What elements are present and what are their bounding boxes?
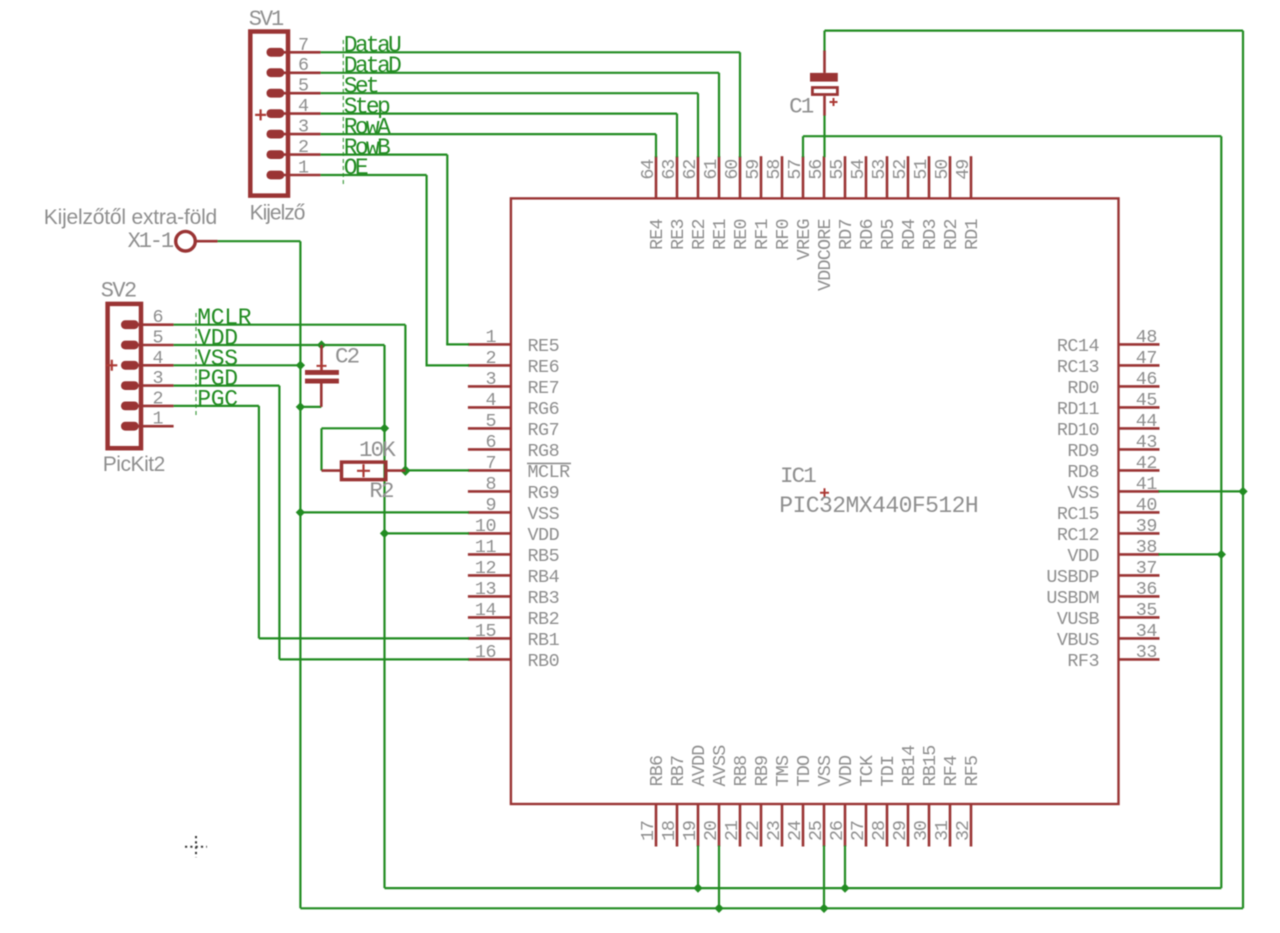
svg-text:63: 63: [659, 160, 680, 180]
IC1 pin 38 VDD stub: [1119, 553, 1160, 556]
pad X1-1 circle: [176, 231, 196, 251]
svg-text:26: 26: [827, 821, 848, 841]
wire net OE to IC pin 2: [426, 364, 469, 366]
wire net VDD bottom rail: [385, 887, 1222, 889]
SV1 pin 4 contact: [267, 109, 285, 118]
IC1 pin 7 MCLR stub: [468, 469, 511, 472]
svg-text:4: 4: [485, 390, 496, 411]
svg-text:RB8: RB8: [731, 756, 752, 787]
svg-text:10: 10: [475, 516, 496, 537]
svg-text:VDD: VDD: [1067, 546, 1099, 567]
svg-text:VUSB: VUSB: [1057, 609, 1100, 630]
IC1 pin 46 RD0 stub: [1119, 385, 1160, 388]
junction VSS / IC pin 41: [1238, 487, 1247, 496]
wire net VDD IC pin 26 drop: [844, 846, 846, 889]
svg-text:28: 28: [869, 821, 890, 841]
wire net DataD vertical to IC top pin: [718, 73, 720, 157]
SV2 pin 6 contact: [121, 320, 139, 329]
svg-text:SV2: SV2: [101, 278, 136, 303]
capacitor C1 plate 1: [810, 73, 838, 82]
svg-text:43: 43: [1136, 432, 1157, 453]
svg-text:35: 35: [1136, 600, 1157, 621]
IC1 pin 2 RE6 stub: [468, 364, 511, 367]
IC1 pin 56 VDDCORE stub: [823, 156, 826, 198]
svg-text:29: 29: [890, 821, 911, 841]
wire net PGC to IC pin 15: [259, 637, 469, 639]
IC1 pin 8 RG9 stub: [468, 490, 511, 493]
svg-text:1: 1: [152, 409, 163, 430]
svg-text:12: 12: [475, 558, 496, 579]
wire net DataD horizontal: [321, 72, 719, 74]
IC1 pin 42 RD8 stub: [1119, 469, 1160, 472]
svg-text:RE1: RE1: [710, 219, 731, 250]
SV2 pin 2 lead: [137, 405, 174, 408]
wire net VSS IC pin 20 drop: [718, 846, 720, 909]
resistor R2 left lead: [322, 469, 342, 472]
SV1 pin 2 lead: [282, 153, 320, 156]
wire net RowA vertical to IC top pin: [655, 134, 657, 157]
IC1 pin 37 USBDP stub: [1119, 574, 1160, 577]
svg-text:7: 7: [485, 453, 496, 474]
IC1 pin 43 RD9 stub: [1119, 448, 1160, 451]
C2 plus mark: [317, 361, 327, 371]
svg-text:Kijelzőtől extra-föld: Kijelzőtől extra-föld: [44, 206, 217, 229]
svg-text:RD9: RD9: [1067, 441, 1099, 462]
svg-text:AVSS: AVSS: [710, 745, 731, 787]
svg-text:10K: 10K: [359, 437, 396, 463]
IC1 pin 13 RB3 stub: [468, 595, 511, 598]
IC1 pin 26 VDD stub: [844, 804, 847, 847]
IC1 pin 1 RE5 stub: [468, 343, 511, 346]
pad X1-1 lead: [195, 240, 217, 243]
svg-text:RD11: RD11: [1057, 399, 1100, 420]
svg-text:31: 31: [932, 820, 953, 841]
junction VDD / IC pin 38: [1217, 550, 1226, 559]
svg-text:SV1: SV1: [249, 7, 284, 32]
svg-text:5: 5: [298, 76, 309, 97]
wire net VDD right vertical: [1220, 136, 1222, 888]
svg-text:45: 45: [1136, 390, 1157, 411]
wire net VSS to IC pin 9: [300, 511, 469, 513]
svg-text:27: 27: [848, 821, 869, 841]
svg-text:24: 24: [785, 820, 806, 841]
svg-text:1: 1: [298, 158, 309, 179]
IC1 pin 17 RB6 stub: [655, 804, 658, 847]
junction VDD / IC pin 10: [380, 529, 389, 538]
svg-text:52: 52: [890, 160, 911, 180]
svg-text:3: 3: [152, 368, 163, 389]
svg-text:11: 11: [475, 537, 497, 558]
svg-text:RD7: RD7: [836, 219, 857, 250]
svg-text:21: 21: [722, 820, 743, 841]
svg-text:RD0: RD0: [1067, 378, 1099, 399]
svg-text:C1: C1: [789, 94, 814, 120]
junction VDD / R2 link: [380, 424, 389, 433]
svg-text:USBDM: USBDM: [1046, 588, 1099, 609]
svg-text:36: 36: [1136, 579, 1157, 600]
svg-text:22: 22: [743, 821, 764, 841]
svg-text:40: 40: [1136, 495, 1157, 516]
wire net VDD to IC pin 10: [385, 532, 469, 534]
svg-text:PicKit2: PicKit2: [103, 453, 165, 476]
IC1 origin cross: [820, 488, 829, 497]
svg-text:37: 37: [1136, 558, 1157, 579]
svg-text:VDDCORE: VDDCORE: [815, 219, 836, 291]
IC1 pin 28 TDI stub: [886, 804, 889, 847]
wire net VSS to IC pin 41: [1159, 490, 1244, 492]
IC1 pin 16 RB0 stub: [468, 658, 511, 661]
IC1 pin 19 AVDD stub: [697, 804, 700, 847]
svg-text:20: 20: [701, 821, 722, 841]
svg-text:53: 53: [869, 160, 890, 180]
svg-text:RG8: RG8: [528, 441, 560, 462]
IC1 pin 36 USBDM stub: [1119, 595, 1160, 598]
IC1 pin 41 VSS stub: [1119, 490, 1160, 493]
IC1 pin 49 RD1 stub: [970, 156, 973, 198]
svg-text:RG6: RG6: [528, 399, 560, 420]
wire net VDD horizontal from SV2: [174, 344, 385, 346]
svg-text:4: 4: [152, 348, 163, 369]
svg-text:VREG: VREG: [794, 219, 815, 260]
wire net VSS: X1-1 to vertical: [218, 240, 301, 242]
svg-text:VSS: VSS: [1067, 483, 1099, 504]
SV2 pin 5 contact: [121, 341, 139, 350]
svg-text:RB5: RB5: [528, 546, 560, 567]
svg-text:RC14: RC14: [1057, 336, 1100, 357]
svg-text:61: 61: [701, 159, 722, 180]
svg-text:AVDD: AVDD: [689, 745, 710, 787]
svg-text:62: 62: [680, 160, 701, 180]
svg-text:RD10: RD10: [1057, 420, 1099, 441]
SV2 origin cross: [106, 360, 117, 371]
SV2 pin 5 lead: [137, 344, 174, 347]
capacitor C2 bottom lead: [320, 384, 323, 407]
IC1 pin 15 RB1 stub: [468, 637, 511, 640]
svg-text:19: 19: [680, 821, 701, 841]
svg-text:6: 6: [298, 55, 309, 76]
svg-text:RF4: RF4: [941, 755, 962, 786]
wire net Step vertical to IC top pin: [676, 114, 678, 158]
wire net MCLR to IC pin 7: [405, 469, 469, 471]
IC1 pin 39 RC12 stub: [1119, 532, 1160, 535]
svg-text:RB2: RB2: [528, 609, 560, 630]
svg-text:54: 54: [848, 159, 869, 180]
svg-text:X1-1: X1-1: [128, 229, 174, 254]
svg-text:30: 30: [911, 821, 932, 841]
IC1 pin 50 RD2 stub: [949, 156, 952, 198]
junction VDD / C2 top: [317, 340, 326, 349]
svg-text:4: 4: [298, 96, 309, 117]
wire net VSS horizontal from SV2: [174, 364, 301, 366]
svg-text:RF1: RF1: [752, 219, 773, 250]
SV1 pin 7 lead: [282, 51, 320, 54]
svg-text:R2: R2: [369, 478, 393, 504]
junction VSS rail / pin 20: [714, 904, 723, 913]
IC1 pin 29 RB14 stub: [907, 804, 910, 847]
wire net RowB horizontal: [321, 154, 448, 156]
wire net RowB to IC pin 1: [446, 343, 469, 345]
capacitor C1 bottom lead: [823, 96, 826, 116]
wire net PGD to IC pin 16: [279, 658, 469, 660]
svg-text:RB7: RB7: [668, 756, 689, 787]
junction VDD rail / pin 19: [693, 883, 702, 892]
svg-text:5: 5: [485, 411, 496, 432]
svg-text:RE7: RE7: [528, 378, 560, 399]
connector SV1 box: [250, 32, 288, 196]
IC1 pin 53 RD5 stub: [886, 156, 889, 198]
IC1 pin 4 RG6 stub: [468, 406, 511, 409]
resistor R2 right lead: [386, 469, 406, 472]
IC1 pin 60 RE0 stub: [739, 156, 742, 198]
svg-text:RC15: RC15: [1057, 504, 1099, 525]
wire net VDD top rail to VREG pin 57: [803, 135, 1221, 137]
svg-text:60: 60: [722, 160, 743, 180]
SV2 pin 2 contact: [121, 402, 139, 411]
SV1 pin 6 lead: [282, 72, 320, 75]
svg-text:RB14: RB14: [899, 745, 920, 787]
wire net PGC vertical: [258, 406, 260, 639]
svg-text:TMS: TMS: [773, 755, 794, 786]
svg-text:PIC32MX440F512H: PIC32MX440F512H: [779, 493, 978, 519]
IC1 pin 23 TMS stub: [781, 804, 784, 847]
IC1 pin 51 RD3 stub: [928, 156, 931, 198]
wire net MCLR vertical: [404, 325, 406, 471]
svg-text:16: 16: [475, 642, 496, 663]
svg-text:RC13: RC13: [1057, 357, 1099, 378]
IC1 pin 44 RD10 stub: [1119, 427, 1160, 430]
capacitor C2 top lead: [320, 345, 323, 370]
wire net VDD drop to pin 57: [802, 136, 804, 157]
svg-text:RD5: RD5: [878, 219, 899, 250]
wire net VSS C1 top drop: [823, 31, 825, 52]
wire net VSS top rail to C1: [825, 30, 1244, 32]
svg-text:MCLR: MCLR: [528, 462, 571, 483]
wire net VSS right vertical: [1242, 31, 1244, 909]
IC1 pin 12 RB4 stub: [468, 574, 511, 577]
SV1 pin 2 contact: [267, 150, 285, 159]
MCLR overline: [527, 462, 571, 464]
svg-text:51: 51: [911, 159, 932, 180]
svg-text:58: 58: [764, 160, 785, 180]
svg-text:48: 48: [1136, 327, 1157, 348]
svg-text:3: 3: [298, 117, 309, 138]
svg-text:34: 34: [1136, 621, 1158, 642]
IC1 pin 62 RE2 stub: [697, 156, 700, 198]
svg-text:42: 42: [1136, 453, 1157, 474]
SV1 pin 4 lead: [282, 112, 320, 115]
svg-text:2: 2: [298, 137, 309, 158]
svg-text:56: 56: [806, 160, 827, 180]
svg-text:C2: C2: [335, 344, 359, 370]
wire net VSS IC pin 25 drop: [823, 846, 825, 909]
svg-text:RD1: RD1: [962, 219, 983, 250]
SV2 pin 3 lead: [137, 384, 174, 387]
svg-text:47: 47: [1136, 348, 1157, 369]
IC1 pin 21 RB8 stub: [739, 804, 742, 847]
svg-text:VSS: VSS: [815, 755, 836, 786]
svg-text:OE: OE: [344, 155, 368, 181]
svg-text:TDI: TDI: [878, 756, 899, 787]
svg-text:RD2: RD2: [941, 219, 962, 250]
wire net MCLR horizontal from SV2: [174, 324, 406, 326]
IC1 pin 33 RF3 stub: [1119, 658, 1160, 661]
svg-text:57: 57: [785, 160, 806, 180]
IC1 pin 27 TCK stub: [865, 804, 868, 847]
svg-text:13: 13: [475, 579, 496, 600]
SV2 net label column dashed origin line: [195, 313, 197, 415]
IC1 pin 6 RG8 stub: [468, 448, 511, 451]
wire net PGC horizontal from SV2: [174, 405, 259, 407]
wire net VSS bottom rail: [300, 907, 1243, 909]
SV2 pin 4 lead: [137, 364, 174, 367]
IC U1 body PIC32MX440F512H: [511, 198, 1119, 804]
svg-text:TCK: TCK: [857, 754, 878, 786]
SV1 origin cross: [255, 109, 266, 120]
svg-text:49: 49: [953, 160, 974, 180]
SV1 pin 6 contact: [267, 68, 285, 77]
svg-text:RC12: RC12: [1057, 525, 1099, 546]
IC1 pin 18 RB7 stub: [676, 804, 679, 847]
wire net VDDCORE C1 bottom to pin 56: [823, 115, 825, 157]
IC1 pin 22 RB9 stub: [760, 804, 763, 847]
svg-text:IC1: IC1: [780, 463, 816, 489]
IC1 pin 20 AVSS stub: [718, 804, 721, 847]
junction VSS / IC pin 9: [296, 508, 305, 517]
wire net VDD to IC pin 38: [1159, 553, 1222, 555]
svg-text:RB0: RB0: [528, 651, 560, 672]
junction VSS rail / pin 25: [819, 904, 828, 913]
svg-text:RD3: RD3: [920, 219, 941, 250]
svg-text:RB1: RB1: [528, 630, 560, 651]
SV2 pin 6 lead: [137, 323, 174, 326]
SV1 pin 5 lead: [282, 92, 320, 95]
wire net Set vertical to IC top pin: [697, 93, 699, 157]
R2 origin cross: [357, 464, 370, 477]
svg-text:33: 33: [1136, 642, 1157, 663]
svg-text:3: 3: [485, 369, 496, 390]
wire net VSS main left vertical: [299, 241, 301, 908]
IC1 pin 31 RF4 stub: [949, 804, 952, 847]
capacitor C1 top lead: [823, 51, 826, 73]
svg-text:5: 5: [152, 328, 163, 349]
svg-text:RD8: RD8: [1067, 462, 1099, 483]
svg-text:RF5: RF5: [962, 756, 983, 787]
svg-text:USBDP: USBDP: [1046, 567, 1099, 588]
svg-text:Kijelző: Kijelző: [250, 202, 305, 225]
wire net Step horizontal: [321, 112, 677, 114]
IC1 pin 3 RE7 stub: [468, 385, 511, 388]
svg-text:46: 46: [1136, 369, 1157, 390]
capacitor C1 plate 2 (polarized outline): [812, 88, 837, 95]
svg-text:RE0: RE0: [731, 219, 752, 250]
IC1 pin 57 VREG stub: [802, 156, 805, 198]
SV1 pin 3 lead: [282, 133, 320, 136]
IC1 pin 48 RC14 stub: [1119, 343, 1160, 346]
svg-text:14: 14: [475, 600, 497, 621]
svg-text:RE4: RE4: [647, 219, 668, 250]
svg-text:6: 6: [485, 432, 496, 453]
junction VSS / SV2 pin 4: [296, 361, 305, 370]
IC1 pin 61 RE1 stub: [718, 156, 721, 198]
svg-text:RB6: RB6: [647, 756, 668, 787]
svg-text:RB3: RB3: [528, 588, 560, 609]
wire net Set horizontal: [321, 92, 698, 94]
IC1 pin 14 RB2 stub: [468, 616, 511, 619]
svg-text:44: 44: [1136, 411, 1158, 432]
wire net DataU vertical to IC top pin: [739, 52, 741, 157]
IC1 pin 58 RF0 stub: [781, 156, 784, 198]
IC1 pin 34 VBUS stub: [1119, 637, 1160, 640]
svg-text:32: 32: [953, 821, 974, 841]
SV2 pin 1 contact: [121, 422, 139, 431]
svg-text:RE6: RE6: [528, 357, 560, 378]
svg-text:1: 1: [485, 327, 496, 348]
connector SV2 box: [108, 304, 141, 448]
IC1 pin 35 VUSB stub: [1119, 616, 1160, 619]
IC1 pin 59 RF1 stub: [760, 156, 763, 198]
svg-text:9: 9: [485, 495, 496, 516]
svg-text:RB4: RB4: [528, 567, 560, 588]
svg-text:VDD: VDD: [528, 525, 560, 546]
svg-text:64: 64: [638, 159, 659, 180]
svg-text:2: 2: [152, 388, 163, 409]
IC1 pin 40 RC15 stub: [1119, 511, 1160, 514]
SV2 pin 3 contact: [121, 381, 139, 390]
svg-text:41: 41: [1136, 474, 1158, 495]
wire net RowB vertical: [446, 155, 448, 345]
IC1 pin 24 TDO stub: [802, 804, 805, 847]
svg-text:59: 59: [743, 160, 764, 180]
SV1 net label column dashed origin line: [342, 40, 344, 186]
wire net OE vertical: [426, 175, 428, 365]
SV2 pin 1 lead: [137, 425, 174, 428]
wire net VDD IC pin 19 drop: [697, 846, 699, 889]
svg-text:18: 18: [659, 821, 680, 841]
svg-text:TDO: TDO: [794, 755, 815, 786]
IC1 pin 45 RD11 stub: [1119, 406, 1160, 409]
svg-text:VBUS: VBUS: [1057, 630, 1100, 651]
svg-text:RE3: RE3: [668, 219, 689, 250]
svg-text:39: 39: [1136, 516, 1157, 537]
SV1 pin 7 contact: [267, 48, 285, 57]
resistor R2 body: [342, 462, 386, 480]
svg-text:RF3: RF3: [1067, 651, 1099, 672]
svg-text:RD4: RD4: [899, 219, 920, 250]
svg-text:8: 8: [485, 474, 496, 495]
svg-text:RB9: RB9: [752, 756, 773, 787]
IC1 pin 63 RE3 stub: [676, 156, 679, 198]
IC1 pin 54 RD6 stub: [865, 156, 868, 198]
wire net RowA horizontal: [321, 133, 656, 135]
capacitor C2 plate 2: [305, 379, 339, 384]
IC1 pin 30 RB15 stub: [928, 804, 931, 847]
svg-text:17: 17: [638, 821, 659, 841]
svg-text:RD6: RD6: [857, 219, 878, 250]
svg-text:25: 25: [806, 821, 827, 841]
svg-text:50: 50: [932, 160, 953, 180]
wire net VDD from SV2 vertical: [383, 345, 385, 888]
svg-text:7: 7: [298, 35, 309, 56]
svg-text:RG7: RG7: [528, 420, 560, 441]
IC1 pin 32 RF5 stub: [970, 804, 973, 847]
IC1 pin 52 RD4 stub: [907, 156, 910, 198]
SV1 pin 3 contact: [267, 130, 285, 139]
junction VDD rail / pin 26: [840, 883, 849, 892]
IC1 pin 5 RG7 stub: [468, 427, 511, 430]
wire net PGD vertical: [278, 386, 280, 660]
svg-text:55: 55: [827, 160, 848, 180]
svg-text:VDD: VDD: [836, 755, 857, 786]
